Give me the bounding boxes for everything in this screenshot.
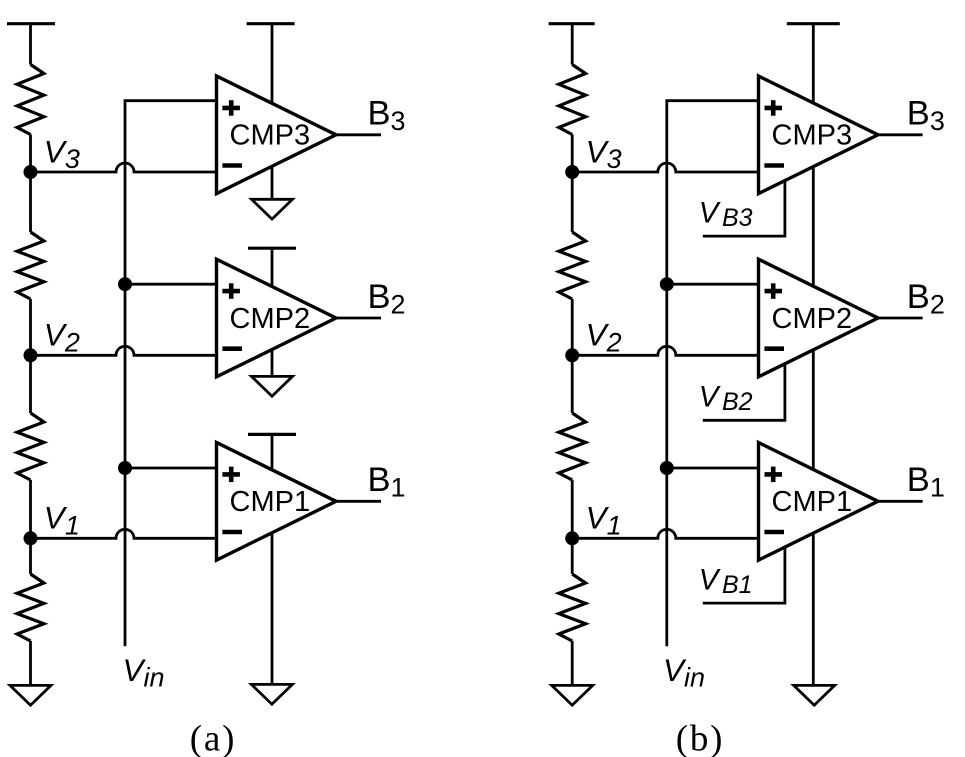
node V3 dot (b) xyxy=(565,165,579,179)
CMP1 - input marker xyxy=(222,530,242,535)
ground under CMP2 (a) xyxy=(252,376,293,396)
output wire CMP1 (b) xyxy=(878,500,923,503)
CMP2 - input marker xyxy=(764,346,784,351)
CMP2 - input marker xyxy=(222,346,242,351)
wire node V2 to CMP2 inverting input (hop over Vin) xyxy=(31,346,217,355)
bias wire V_B2 stub xyxy=(703,364,785,421)
bias wire V_B3 stub xyxy=(703,181,785,237)
comparator CMP2 (a) body xyxy=(217,259,337,377)
ground under CMP1 (a) xyxy=(251,684,292,704)
CMP3 + input marker xyxy=(765,100,783,116)
wire R8 to ground (b) xyxy=(571,641,574,686)
junction dot Vin/CMP2 (a) xyxy=(118,277,132,291)
wire node V1 to CMP1 inverting input (hop over Vin) xyxy=(31,529,217,538)
wire R5 to node V3 (b) xyxy=(571,135,574,173)
output wire CMP3 (b) xyxy=(878,133,923,136)
ground under ladder (b) xyxy=(552,685,593,705)
wire R3 to node V1 xyxy=(29,480,32,538)
wire supply bar to R1 xyxy=(29,24,32,65)
wire R7 to node V1 (b) xyxy=(571,480,574,538)
wire node V1 to R8 (b) xyxy=(571,538,574,574)
wire CMP3 to ground (a) xyxy=(271,166,274,200)
svg-text:CMP3: CMP3 xyxy=(772,120,853,152)
node V1 dot (b) xyxy=(565,531,579,545)
output wire CMP2 (a) xyxy=(336,317,381,320)
comparator CMP1 (a) body xyxy=(217,443,337,561)
ground under ladder (a) xyxy=(10,685,51,705)
wire R2 to node V2 xyxy=(29,299,32,355)
wire R4 to ground xyxy=(29,641,32,686)
wire Vin to CMP1 non-inverting input xyxy=(125,467,217,470)
CMP3 - input marker xyxy=(764,163,784,168)
CMP3 + input marker xyxy=(222,100,240,116)
wire Vin to CMP1 non-inverting input (b) xyxy=(667,467,759,470)
supply bar CMP2 (a) xyxy=(248,247,296,250)
wire Vin to CMP2 non-inverting input (b) xyxy=(667,283,759,286)
ground under supply rail (b) xyxy=(794,685,835,705)
node V1 dot (a) xyxy=(24,531,38,545)
CMP1 - input marker xyxy=(764,530,784,535)
svg-text:CMP2: CMP2 xyxy=(772,303,853,335)
supply rail down behind comparators (b) xyxy=(812,24,815,687)
output wire CMP3 (a) xyxy=(336,133,381,136)
wire supply bar to R1 (b) xyxy=(571,24,574,65)
svg-text:CMP1: CMP1 xyxy=(230,486,311,518)
node V2 dot (b) xyxy=(565,348,579,362)
junction dot Vin/CMP2 (b) xyxy=(660,277,674,291)
resistor R5 xyxy=(559,65,586,135)
wire node V3 to CMP3 inverting input (hop over Vin) xyxy=(31,163,217,172)
wire CMP1 to bottom ground (a) xyxy=(271,533,274,686)
wire R1 to node V3 xyxy=(29,135,32,173)
wire node V3 to CMP3 inverting input (b) xyxy=(572,163,758,172)
CMP2 + input marker xyxy=(765,283,783,299)
wire supply to CMP2 (a) xyxy=(271,248,274,286)
wire node V2 to R3 xyxy=(29,355,32,413)
ground under CMP3 (a) xyxy=(252,199,293,219)
wire node V3 to R2 xyxy=(29,172,32,232)
Vin input wire (b) xyxy=(667,101,759,647)
supply bar comparators (b) xyxy=(787,22,840,25)
resistor R4 xyxy=(17,574,44,641)
wire supply to CMP3 (a) xyxy=(271,24,274,104)
wire R6 to node V2 (b) xyxy=(571,299,574,355)
wire CMP2 to ground (a) xyxy=(271,350,274,378)
comparator CMP3 (a) body xyxy=(217,76,337,194)
resistor R2 xyxy=(17,232,44,299)
svg-text:CMP3: CMP3 xyxy=(230,120,311,152)
comparator CMP1 (b) body xyxy=(759,443,879,561)
wire node V1 to CMP1 inverting input (b) xyxy=(572,529,758,538)
resistor R8 xyxy=(559,574,586,641)
node V3 dot (a) xyxy=(24,165,38,179)
CMP1 + input marker xyxy=(222,467,240,483)
comparator CMP2 (b) body xyxy=(759,259,879,377)
junction dot Vin/CMP1 (b) xyxy=(660,461,674,475)
wire node V2 to CMP2 inverting input (b) xyxy=(572,346,758,355)
svg-text:(b): (b) xyxy=(676,719,725,757)
resistor R3 xyxy=(17,413,44,480)
resistor R6 xyxy=(559,232,586,299)
circuit (a) supply bar over resistor ladder xyxy=(7,22,55,25)
resistor R7 xyxy=(559,413,586,480)
CMP1 + input marker xyxy=(765,467,783,483)
wire Vin to CMP2 non-inverting input xyxy=(125,283,217,286)
output wire CMP1 (a) xyxy=(336,500,381,503)
wire supply to CMP1 (a) xyxy=(271,434,274,469)
svg-text:CMP2: CMP2 xyxy=(230,303,311,335)
node V2 dot (a) xyxy=(24,348,38,362)
circuit (b) supply bar over resistor ladder xyxy=(549,22,595,25)
supply bar CMP3 (a) xyxy=(247,22,295,25)
wire node V3 to R6 (b) xyxy=(571,172,574,232)
svg-text:CMP1: CMP1 xyxy=(772,486,853,518)
wire node V2 to R7 (b) xyxy=(571,355,574,413)
output wire CMP2 (b) xyxy=(878,317,923,320)
junction dot Vin/CMP1 (a) xyxy=(118,461,132,475)
supply bar CMP1 (a) xyxy=(248,433,296,436)
bias wire V_B1 stub xyxy=(703,547,785,603)
CMP2 + input marker xyxy=(222,283,240,299)
svg-text:(a): (a) xyxy=(190,719,236,757)
comparator CMP3 (b) body xyxy=(759,76,879,194)
resistor R1 xyxy=(17,65,44,135)
CMP3 - input marker xyxy=(222,163,242,168)
wire node V1 to R4 xyxy=(29,538,32,574)
Vin input wire (a) xyxy=(125,101,217,647)
